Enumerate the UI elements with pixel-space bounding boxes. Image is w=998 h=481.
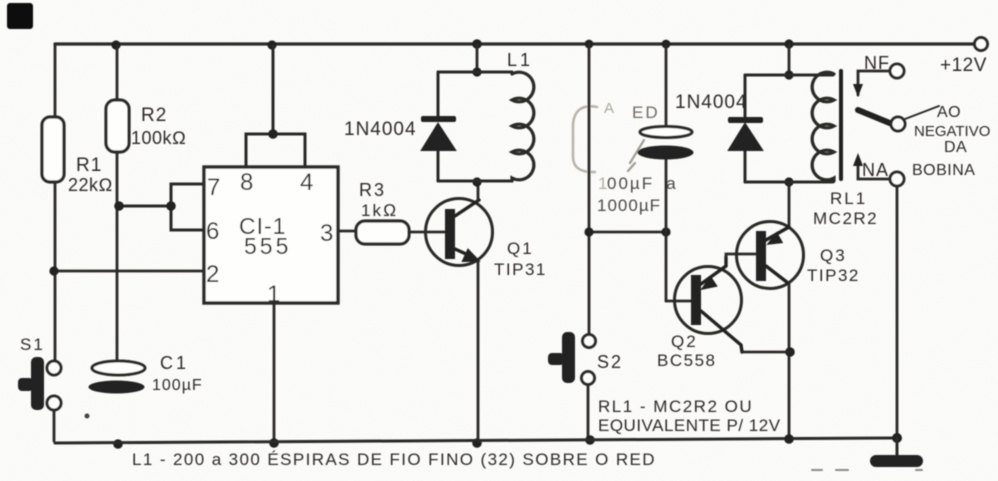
node C1 bottom <box>113 439 123 449</box>
wire middle horizontal <box>589 231 666 234</box>
svg-text:MC2R2: MC2R2 <box>813 209 878 228</box>
wire RL1 top bar <box>745 74 833 77</box>
svg-text:Q1: Q1 <box>507 239 534 258</box>
relay core bar <box>839 71 843 179</box>
svg-text:RL1: RL1 <box>830 189 867 208</box>
node on rail x272 <box>267 40 276 49</box>
wire S1 bottom to rail <box>53 410 56 441</box>
diode D1 1N4004 <box>437 72 440 181</box>
svg-text:+12V: +12V <box>940 55 987 76</box>
node Q3-Q2 junction <box>785 347 795 357</box>
terminal NA <box>890 172 904 186</box>
svg-text:TIP31: TIP31 <box>494 260 547 279</box>
ground <box>896 438 899 457</box>
wire 8-4 bracket <box>246 46 305 167</box>
wire RL1 bottom to Q3 <box>788 182 791 227</box>
svg-text:L1: L1 <box>507 50 533 70</box>
svg-text:NA: NA <box>862 160 889 180</box>
diode D2 1N4004 <box>744 75 747 182</box>
svg-text:100kΩ: 100kΩ <box>131 128 186 148</box>
scan artifact square <box>7 3 33 29</box>
switch S2 <box>583 335 596 348</box>
terminal common <box>891 117 905 131</box>
svg-text:RL1 - MC2R2 OU: RL1 - MC2R2 OU <box>598 397 753 416</box>
switch S1 <box>47 361 61 375</box>
svg-text:00µF a: 00µF a <box>607 174 678 193</box>
node RL1 bottom <box>784 177 793 186</box>
svg-text:1000µF: 1000µF <box>597 196 661 215</box>
svg-text:22kΩ: 22kΩ <box>68 175 113 195</box>
node bracket <box>166 201 176 211</box>
speck dot <box>85 414 90 419</box>
wire RL1 bottom bar <box>745 181 833 184</box>
node pin1 bottom <box>269 438 279 448</box>
svg-text:3: 3 <box>320 220 333 247</box>
svg-text:TIP32: TIP32 <box>807 266 860 285</box>
wire Q2 collector to junction <box>742 351 790 354</box>
svg-text:7: 7 <box>207 174 220 201</box>
wire left vertical <box>54 44 57 361</box>
capacitor C2 plates <box>640 127 692 138</box>
node L1 block bottom <box>472 177 481 186</box>
svg-text:BC558: BC558 <box>657 351 716 370</box>
svg-text:A: A <box>604 100 614 117</box>
node on rail x589 <box>585 40 594 49</box>
svg-text:1kΩ: 1kΩ <box>361 201 398 220</box>
svg-text:ED: ED <box>632 103 660 122</box>
node on rail x789 <box>784 39 793 48</box>
wire S2 riser <box>588 44 591 335</box>
wire Q3 collector down <box>788 284 791 439</box>
svg-text:Q2: Q2 <box>671 332 698 351</box>
svg-text:R2: R2 <box>141 105 167 126</box>
svg-text:C1: C1 <box>160 353 189 373</box>
svg-text:1N4004: 1N4004 <box>675 92 748 113</box>
svg-text:NF: NF <box>864 53 890 73</box>
svg-text:BOBINA: BOBINA <box>912 162 975 179</box>
wire R3 to Q1 base <box>409 231 445 234</box>
node S2 bottom <box>585 435 595 445</box>
node on rail x116 <box>111 40 120 49</box>
wire NA to rail <box>896 186 899 438</box>
resistor R3 <box>356 221 409 244</box>
wire Q1 emitter down <box>477 261 480 443</box>
wire Q2 base <box>666 300 691 303</box>
wire pin1 down <box>273 303 276 443</box>
svg-text:8: 8 <box>240 169 253 196</box>
wire R2 vertical <box>116 46 119 361</box>
pointer line to AO <box>905 106 939 119</box>
wire L1 block riser <box>476 44 479 72</box>
svg-text:6: 6 <box>206 218 219 245</box>
relay contact NA wire and arrow <box>858 160 890 179</box>
wire bottom rail <box>55 438 897 443</box>
wire pin2 horizontal <box>55 270 204 273</box>
wire +12V top rail <box>55 42 974 45</box>
relay contact NF wire and arrow <box>858 71 890 95</box>
svg-text:DA: DA <box>944 139 967 156</box>
ghost erased LED <box>573 100 644 172</box>
svg-text:EQUIVALENTE P/ 12V: EQUIVALENTE P/ 12V <box>598 416 781 435</box>
svg-text:R1: R1 <box>76 155 102 176</box>
svg-text:100µF: 100µF <box>152 377 203 394</box>
svg-text:AO: AO <box>937 104 961 121</box>
wire RL1 riser <box>788 44 791 75</box>
svg-text:Q3: Q3 <box>820 246 847 265</box>
resistor R2 <box>106 100 129 152</box>
node bracket 8-4 <box>268 129 278 139</box>
inductor L1 coil <box>512 72 534 181</box>
wire C2 vertical <box>665 44 668 301</box>
transistor Q1 <box>426 199 493 266</box>
node ground junction <box>892 433 902 443</box>
node RL1 top <box>784 70 793 79</box>
wire S2 bottom <box>587 385 590 440</box>
wire L1 block top bar <box>438 71 512 74</box>
transistor Q3 <box>737 222 804 289</box>
node pin2 left <box>49 266 58 275</box>
svg-text:S1: S1 <box>20 335 45 354</box>
relay switch arm <box>858 110 892 124</box>
wire pin3 to R3 <box>338 230 356 233</box>
node R2-bracket <box>114 201 124 211</box>
svg-text:1N4004: 1N4004 <box>344 119 417 140</box>
node Q3 bottom rail <box>784 434 794 444</box>
node mid left <box>584 227 593 236</box>
svg-text:2: 2 <box>206 261 219 288</box>
relay coil RL1 <box>812 72 834 181</box>
capacitor C1 <box>92 361 145 375</box>
svg-text:L1 - 200 a 300 ÉSPIRAS DE FIO: L1 - 200 a 300 ÉSPIRAS DE FIO FINO (32) … <box>132 450 656 469</box>
svg-text:S2: S2 <box>597 352 623 372</box>
speck dashes <box>812 469 922 471</box>
terminal +12V <box>975 38 988 51</box>
wire L1 block bottom bar <box>438 180 512 183</box>
svg-text:555: 555 <box>244 233 291 259</box>
node L1 block top <box>472 67 481 76</box>
node Q1 emitter bottom <box>472 438 482 448</box>
svg-text:R3: R3 <box>359 180 386 200</box>
node mid right <box>661 227 670 236</box>
terminal NF <box>890 64 904 78</box>
svg-text:NEGATIVO: NEGATIVO <box>914 123 990 140</box>
transistor Q2 <box>675 267 742 334</box>
node on rail x477 <box>472 39 482 49</box>
node on rail x666 <box>662 40 671 49</box>
svg-text:4: 4 <box>300 169 313 196</box>
op-amp U1 CI-1 555 box <box>204 167 338 303</box>
resistor R1 <box>42 117 64 182</box>
wire 7-6 bracket <box>119 184 204 230</box>
wire Q1 collector up <box>477 183 480 200</box>
wire Q2 emitter to Q3 base <box>726 254 756 257</box>
